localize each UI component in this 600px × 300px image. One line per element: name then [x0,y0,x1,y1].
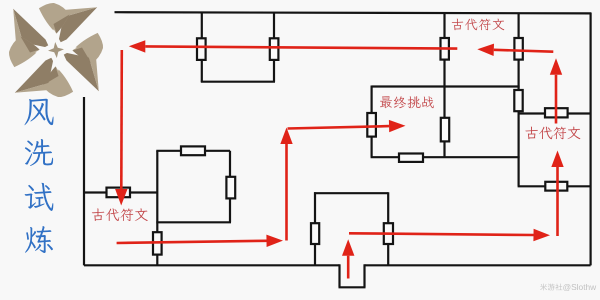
wire: bottom border wall left of entrance gap [84,264,340,266]
route arrow 8: east along lower corridor [117,235,283,247]
wire: middle room bottom wall [156,221,231,223]
wire: bottom border wall right of entrance gap [365,264,591,266]
door D3 on central wall upper [441,38,449,60]
wire: west corridor wall [84,191,157,193]
label: ancient rune (west) [92,208,148,221]
watermark: 米游社@Slothw [540,282,597,292]
door D8 on central wall lower [441,118,449,142]
wire: bottom room left wall [314,192,316,265]
door D7 on challenge room left wall [367,113,376,137]
door D9 on challenge room bottom wall [399,154,423,162]
wire: top room left wall [201,13,203,82]
route arrow 3: north through east lower door [551,151,563,237]
wire: middle room left wall [156,151,158,265]
door D13 on middle room right wall [226,177,235,199]
wire: top room bottom wall [201,81,275,83]
route arrow 7: south to west rune door [115,50,127,206]
door D2 on top room right wall [270,38,279,60]
wire: central vertical wall [443,13,445,157]
wire: east vertical wall [517,13,519,186]
door D5 on east wall lower [514,90,522,111]
wire: entrance alcove left wall [338,264,340,287]
wire: entrance alcove bottom wall [339,286,366,288]
label: ancient rune (top) [452,19,505,31]
label: 风洗试炼 trial title (vertical blue) [24,99,53,253]
svg-text:@Slothw: @Slothw [563,282,598,292]
door D11 on west corridor wall [107,188,131,198]
route arrow 4: north through east upper door [550,58,562,123]
wire: bottom room right wall [387,192,389,265]
wire: entrance alcove right wall [363,264,365,287]
wire: challenge room top wall [372,85,520,87]
logo: pinwheel emblem [9,3,103,97]
route arrow 6: long west run across top [129,40,458,52]
wire: challenge room bottom wall [371,156,520,158]
wire: top room right wall [273,13,275,82]
route arrow 9: north up middle corridor [280,128,292,241]
door D4 on east wall upper [514,38,522,60]
door D12 on middle room top wall [181,146,205,155]
route arrow 1: up from entrance [342,239,354,278]
wire: top border wall [115,12,592,13]
route arrow 2: east across bottom rooms [349,229,550,241]
wire: middle room top wall [156,150,230,152]
wire: middle room right wall [229,151,231,223]
door D16 on bottom room right wall [384,223,393,244]
door D1 on top room left wall [197,38,206,60]
label: ancient rune (east) [525,127,580,140]
route arrow 10: east into final challenge [288,120,406,132]
door D14 on middle room lower-left wall [153,232,162,254]
wire: challenge room left wall [371,86,373,158]
wire: east upper room wall [519,112,591,114]
door D10 on east lower room wall [545,182,567,191]
wire: east lower room wall [518,185,591,187]
wire: right border wall [589,13,591,266]
label: final challenge [380,96,434,108]
door D6 on east upper room wall [545,108,568,117]
wire: left border wall [83,97,85,265]
logo core diamond [48,42,64,58]
door D15 on bottom room left wall [311,223,319,244]
wire: bottom room top wall [314,192,388,194]
logo center star cutout [35,29,77,71]
route arrow 5: west through east wall door [477,44,553,56]
